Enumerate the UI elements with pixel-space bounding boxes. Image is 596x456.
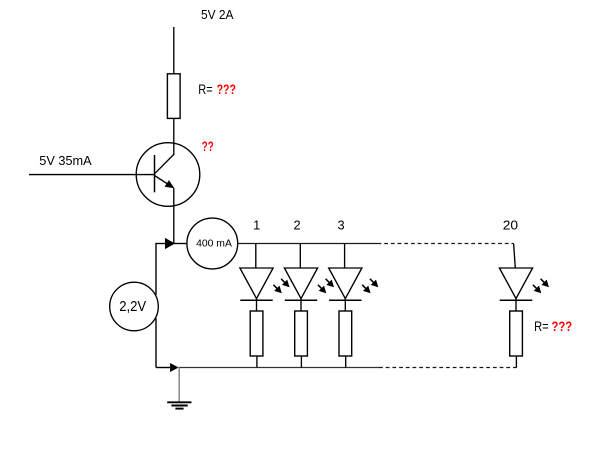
svg-text:R=???: R=??? <box>534 319 572 334</box>
resistor column 3 <box>339 311 352 356</box>
wire voltmeter to ground bus (elbow) <box>155 318 157 367</box>
wire R1 to transistor collector <box>173 118 175 154</box>
resistor column 1 <box>250 311 263 356</box>
ground symbol <box>167 368 191 409</box>
LED D20 light arrows <box>533 279 549 293</box>
wire anode bus (solid) <box>238 243 378 245</box>
junction arrow at node E <box>165 238 175 249</box>
LED D2 light arrows <box>318 279 334 293</box>
resistor column 2 <box>295 311 308 356</box>
LED D2 <box>284 268 317 300</box>
svg-text:3: 3 <box>337 218 344 233</box>
svg-text:1: 1 <box>253 218 260 233</box>
voltmeter V1 2,2V <box>110 282 159 331</box>
wire anode bus (dashed continuation) <box>378 243 514 245</box>
wire node E to voltmeter branch (elbow) <box>156 243 167 245</box>
svg-text:20: 20 <box>503 218 518 233</box>
wire base input <box>29 174 155 176</box>
wire resistor 20 to ground bus <box>515 356 517 368</box>
wire D1 cathode to resistor <box>256 299 258 311</box>
svg-text:5V 2A: 5V 2A <box>201 8 234 22</box>
wire anode drop column 2 <box>299 244 301 269</box>
LED D20 <box>499 268 532 300</box>
wire D20 cathode to resistor <box>515 299 517 311</box>
wire anode drop column 3 <box>344 244 346 269</box>
ammeter A1 400 mA <box>187 218 238 269</box>
wire resistor 2 to ground bus <box>300 356 302 368</box>
svg-text:??: ?? <box>202 139 214 154</box>
wire emitter down to node E <box>173 188 175 244</box>
transistor Q1 <box>136 143 200 207</box>
LED D1 light arrows <box>273 279 289 293</box>
svg-text:R=???: R=??? <box>198 82 236 97</box>
ground bus dashed continuation <box>379 367 517 369</box>
svg-text:2,2V: 2,2V <box>119 298 147 315</box>
LED D1 <box>240 268 273 300</box>
ground bus solid <box>179 367 379 369</box>
wire anode drop column 20 <box>514 244 516 269</box>
wire supply to resistor R1 <box>173 27 175 74</box>
svg-text:400 mA: 400 mA <box>196 238 232 249</box>
junction arrow at ground node <box>170 363 179 372</box>
wire resistor 3 to ground bus <box>345 356 347 368</box>
wire node E to ammeter <box>174 243 187 245</box>
wire D3 cathode to resistor <box>344 299 346 311</box>
resistor column 20 <box>510 311 523 356</box>
resistor R1 <box>167 74 180 119</box>
svg-text:2: 2 <box>293 218 300 233</box>
wire anode drop column 1 <box>255 244 257 269</box>
wire resistor 1 to ground bus <box>256 356 258 368</box>
LED D3 light arrows <box>362 279 378 293</box>
svg-text:5V 35mA: 5V 35mA <box>39 154 92 168</box>
wire D2 cathode to resistor <box>300 299 302 311</box>
LED D3 <box>329 268 362 300</box>
